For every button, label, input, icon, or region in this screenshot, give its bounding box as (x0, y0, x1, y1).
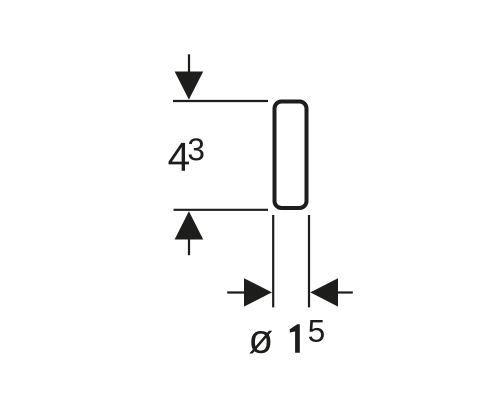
top dimension arrowhead (down) (175, 72, 204, 100)
pill outline (flush actuator side view) (275, 102, 307, 209)
bottom extension line (bottom of pill) (174, 209, 269, 211)
top extension line (top of pill) (173, 100, 268, 102)
bottom dimension arrow stem (188, 239, 190, 255)
height label superscript 3 (189, 138, 204, 160)
right width extension line (308, 215, 310, 307)
right width arrowhead (left) (310, 278, 338, 306)
left width arrowhead (right) (244, 278, 272, 306)
width label superscript 5 (309, 320, 324, 342)
left width arrow stem (227, 291, 245, 293)
width label 1 (sans foot serif) (290, 324, 300, 353)
top dimension arrow stem (188, 54, 190, 73)
right width arrow stem (337, 291, 353, 293)
diameter symbol (249, 331, 272, 354)
left width extension line (272, 215, 274, 307)
height label 4 (169, 143, 189, 171)
bottom dimension arrowhead (up) (175, 211, 204, 239)
